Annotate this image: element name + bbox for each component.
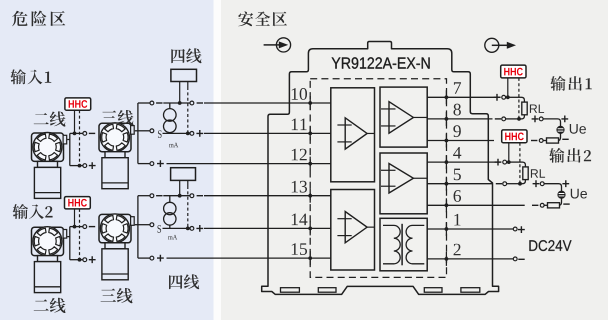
series resistor xyxy=(547,138,559,143)
wire: 3-wire minus row xyxy=(138,102,150,104)
amplifier block U1 (input1 isolation amp) xyxy=(331,88,375,182)
wire: output row + xyxy=(446,96,500,98)
Ue voltage source xyxy=(558,191,565,198)
pin number 11 xyxy=(292,119,307,131)
wire: pin 12 stub into amp block xyxy=(310,163,331,165)
wire: S row to pin 11 xyxy=(163,132,191,134)
terminal circle (4-wire plus) xyxy=(190,132,194,136)
wire: pin 11 stub into amp block xyxy=(310,132,331,134)
label: input 1 输入1 xyxy=(11,69,52,84)
wire: output row - xyxy=(446,118,492,120)
pin number 14 xyxy=(292,214,308,226)
transformer block T1 (isolated power) xyxy=(380,218,427,270)
series resistor xyxy=(548,203,560,208)
amplifier block U4 (output2 driver) xyxy=(380,153,427,214)
op-amp triangle inside U4 xyxy=(389,164,413,194)
pin number 7 xyxy=(454,82,461,93)
pin number 4 xyxy=(453,147,461,159)
pin number 15 xyxy=(292,243,307,255)
transmitter: 3-wire (input1) xyxy=(99,123,131,151)
HHC barrier logo box (output) xyxy=(502,130,527,143)
pin 7 terminal tick and junction xyxy=(445,90,447,104)
wire: output row - xyxy=(446,183,492,185)
wire: 3-wire plus row xyxy=(138,163,150,165)
wire: pin 7 stub from block to border xyxy=(427,96,446,98)
amplifier block U2 (input2 isolation amp) xyxy=(331,190,375,271)
4-wire dashed leg xyxy=(187,82,189,88)
pin 10 terminal tick and junction xyxy=(309,96,311,110)
terminal circle 3-wire plus xyxy=(150,162,154,166)
wire: output row + xyxy=(446,161,500,163)
dashed safety-barrier inner border xyxy=(310,79,446,278)
pin 2 terminal tick and junction xyxy=(445,252,447,266)
wire: pin 1 stub from block to border xyxy=(427,228,446,230)
label 四线 (top) xyxy=(171,48,201,63)
pin 8 terminal tick and junction xyxy=(445,112,447,126)
wire: pin 4 stub from block to border xyxy=(427,161,446,163)
junction on plus stub xyxy=(78,164,82,168)
amplifier block U3 (output1 driver) xyxy=(380,87,427,147)
wire: 2-wire bus (input2) xyxy=(67,227,70,260)
label 二线 (top) xyxy=(34,111,66,126)
label 四线 (bottom) xyxy=(169,274,199,289)
terminal circle (4-wire minus) xyxy=(190,101,194,105)
label DC24V xyxy=(529,240,571,251)
wire: 3-wire tab to S (input2) xyxy=(135,224,150,226)
label 三线 (bottom) xyxy=(101,288,133,303)
label mA (input2) xyxy=(168,235,177,240)
wire: row to pin 10 xyxy=(163,102,190,104)
wire: pin 13 stub into amp block xyxy=(310,195,331,197)
label mA (input1) xyxy=(169,143,178,148)
pin 9 terminal tick and junction xyxy=(445,134,447,148)
wire: 3-wire tab to S xyxy=(135,130,150,132)
mA source circles (input1) xyxy=(164,109,177,122)
wire: pin 9 stub from block to border xyxy=(427,140,446,142)
wire: DC24V - row (pin 2) xyxy=(446,258,513,260)
label 输出2 xyxy=(549,148,591,163)
wire: to external supply Ue + xyxy=(532,116,539,123)
pin number 8 xyxy=(453,104,460,116)
pin number 10 xyxy=(292,88,307,100)
terminal circle 3-wire minus (input2) xyxy=(150,194,154,198)
label: safe area 安全区 xyxy=(238,11,287,26)
pin number 6 xyxy=(454,190,461,202)
HHC barrier logo box (input1) xyxy=(65,98,91,110)
wire: plus row to pin 12 xyxy=(167,163,311,165)
wire: 2-wire transmitter bus xyxy=(67,133,70,165)
4-wire transmitter box (input2) xyxy=(171,168,196,181)
pin 1 terminal tick and junction xyxy=(445,222,447,236)
foot slot left 1 xyxy=(281,288,300,293)
HHC dashed leg (output) xyxy=(518,78,520,119)
HHC solid leg (output) xyxy=(507,78,509,97)
pin 6 terminal tick and junction xyxy=(445,198,447,212)
mA source stubs xyxy=(169,103,171,109)
pin 15 terminal tick and junction xyxy=(309,251,311,265)
terminal circle 2-wire plus xyxy=(83,164,87,168)
module title YR9122A-EX-N xyxy=(332,57,430,68)
pin number 12 xyxy=(292,149,307,161)
mA source circles (input2) xyxy=(164,202,176,214)
HHC dashed leg (output) xyxy=(519,143,521,184)
op-amp triangle inside U2 xyxy=(345,212,367,243)
wire: 3-wire bus vertical (input2) xyxy=(137,196,139,258)
pin 13 terminal tick and junction xyxy=(309,189,311,203)
junction: 4-wire dashed leg on row 11 xyxy=(186,132,190,136)
label 二线 (bottom) xyxy=(34,298,66,313)
junction on minus stub xyxy=(73,132,77,136)
wire: to external supply Ue + xyxy=(533,180,540,187)
wire: pin 8 stub from block to border xyxy=(427,118,446,120)
op-amp triangle inside U3 xyxy=(389,102,413,134)
pin number 2 xyxy=(454,244,461,256)
wire: pin 15 stub into amp block xyxy=(310,257,331,259)
pin number 5 xyxy=(454,169,461,181)
label 输出1 xyxy=(550,76,592,91)
HHC solid leg (output) xyxy=(508,143,510,162)
4-wire transmitter box (input1) xyxy=(171,69,197,81)
4-wire solid leg xyxy=(179,82,181,104)
pin number 9 xyxy=(453,125,460,137)
transmitter: 3-wire (input2) xyxy=(99,214,131,242)
wire: 2-wire minus stub xyxy=(70,132,83,134)
label: hazardous area 危险区 xyxy=(12,11,65,27)
wire: 3-wire bus vertical xyxy=(137,103,139,164)
wire: load return row xyxy=(446,140,494,142)
hazardous-area background panel xyxy=(0,0,214,320)
wire: pin 10 stub into amp block xyxy=(310,102,331,104)
foot slot right 1 xyxy=(424,288,442,293)
module case outline (DIN-rail isolator body) xyxy=(262,42,499,295)
wire: row to pin 13 xyxy=(163,195,190,197)
pin 14 terminal tick and junction xyxy=(309,221,311,235)
HHC solid leg xyxy=(74,110,76,133)
load resistor RL xyxy=(522,102,527,115)
wire: pin 14 stub into amp block xyxy=(310,227,331,229)
wire to RL top xyxy=(507,161,523,163)
pin number 1 xyxy=(454,214,460,226)
wire to RL top xyxy=(506,96,522,98)
wire: S row to pin 14 xyxy=(163,227,191,229)
transmitter: 2-wire (input1) xyxy=(32,133,64,161)
pin 5 terminal tick and junction xyxy=(445,177,447,191)
junction: 4-wire solid leg on row 10 xyxy=(178,101,182,105)
wire: pin 2 stub from block to border xyxy=(427,258,446,260)
op-amp triangle inside U1 xyxy=(345,118,367,149)
safe-area background panel xyxy=(221,0,608,320)
terminal circle 3-wire plus (input2) xyxy=(150,256,154,260)
foot slot right 2 xyxy=(461,288,480,293)
transmitter: 2-wire (input2) xyxy=(32,227,64,255)
Ue voltage source xyxy=(557,126,564,133)
HHC dashed leg xyxy=(79,110,81,165)
HHC barrier logo box (output) xyxy=(501,65,526,78)
wire: 2-wire minus stub (input2) xyxy=(70,226,83,228)
foot slot left 2 xyxy=(318,288,336,293)
wire: DC24V + row (pin 1) xyxy=(446,228,513,230)
terminal circle S (input2) xyxy=(150,223,154,227)
pin number 13 xyxy=(292,181,307,193)
label 三线 (top) xyxy=(102,110,134,125)
HHC barrier logo box (input2) xyxy=(65,197,91,209)
wire: 2-wire plus stub (input2) xyxy=(70,259,83,261)
arrow symbol: signal into safe area xyxy=(264,44,279,46)
pin 12 terminal tick and junction xyxy=(309,157,311,171)
terminal circle S xyxy=(150,129,154,133)
pin 4 terminal tick and junction xyxy=(445,155,447,169)
HHC solid leg (input2) xyxy=(74,209,76,227)
HHC dashed leg (input2) xyxy=(79,209,81,260)
terminal circle 3-wire minus xyxy=(150,101,154,105)
arrow symbol: signal out of module xyxy=(485,38,499,52)
transformer windings inside T1 xyxy=(383,225,400,263)
load resistor RL xyxy=(523,167,528,180)
wire: pin 5 stub from block to border xyxy=(427,183,446,185)
pin 11 terminal tick and junction xyxy=(309,126,311,140)
wire: 2-wire plus stub xyxy=(70,165,83,167)
terminal circle 2-wire minus xyxy=(83,132,87,136)
label: input 2 输入2 xyxy=(13,204,53,219)
wire: pin 6 stub from block to border xyxy=(427,204,446,206)
wire: load return row xyxy=(446,204,524,206)
wire: plus row to pin 15 xyxy=(167,257,311,259)
